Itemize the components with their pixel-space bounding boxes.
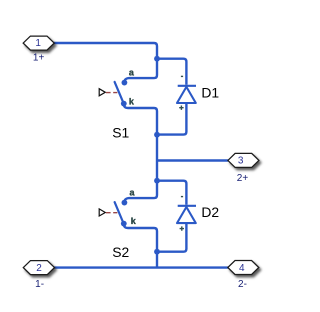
node junction J3 [154, 178, 160, 184]
wire: J1 to diode D1 top [157, 59, 186, 85]
svg-text:k: k [131, 216, 137, 226]
D2 plus label [180, 226, 184, 230]
wire: diode D2 bottom to J4 [157, 223, 186, 252]
wire: switch S1 terminal k to J2 [124, 105, 157, 135]
switch S2 [99, 188, 137, 260]
S1 gate triangle [99, 89, 105, 96]
switch S1 [99, 68, 135, 141]
port 3 [228, 153, 259, 184]
S2 terminal a dot [122, 200, 128, 206]
svg-text:2-: 2- [238, 279, 247, 290]
node junction J1 [154, 56, 160, 62]
svg-text:2+: 2+ [237, 173, 249, 184]
svg-text:a: a [129, 188, 135, 198]
port 2 [23, 261, 54, 290]
svg-text:S1: S1 [112, 125, 129, 141]
svg-text:k: k [129, 97, 135, 107]
port 1 [23, 36, 54, 63]
wire: rail J2 to port3 tee [156, 135, 158, 161]
S2 lever [115, 202, 124, 223]
D2 minus label [181, 196, 183, 198]
diode D1 [177, 76, 219, 110]
diode D2 [177, 197, 219, 231]
S2 gate dashed line [106, 212, 117, 214]
svg-text:1-: 1- [35, 279, 44, 290]
svg-text:a: a [129, 68, 135, 78]
wire: port 1 to junction J1 [53, 43, 157, 59]
S2 terminal k dot [121, 221, 127, 227]
wire: tee to port 3 [157, 159, 228, 161]
svg-text:1+: 1+ [33, 52, 45, 63]
wire: J3 to switch S2 terminal a [124, 181, 157, 203]
node junction J4 [154, 249, 160, 255]
svg-text:2: 2 [36, 263, 42, 274]
D2 cathode bar [178, 205, 196, 207]
wire: J3 to diode D2 top [157, 181, 186, 205]
S1 terminal a dot [122, 80, 128, 86]
wire: switch S2 terminal k to J4 [124, 225, 157, 252]
svg-text:3: 3 [238, 156, 244, 167]
svg-text:D2: D2 [201, 204, 219, 220]
svg-text:D1: D1 [201, 85, 219, 101]
svg-text:S2: S2 [112, 244, 129, 260]
wire: rail tee to J3 [156, 161, 158, 181]
D2 triangle [177, 207, 196, 223]
port 4 [228, 261, 259, 291]
node junction J2 [154, 132, 160, 138]
D1 plus label [179, 106, 183, 110]
S1 gate dashed line [106, 92, 117, 94]
D1 cathode bar [178, 85, 196, 87]
D1 triangle [177, 87, 196, 103]
wire: J1 to switch S1 terminal a [124, 59, 157, 82]
S1 lever [115, 82, 124, 103]
svg-text:1: 1 [35, 38, 41, 49]
D1 minus label [181, 75, 183, 77]
svg-text:4: 4 [239, 263, 245, 274]
S1 terminal k dot [121, 101, 127, 107]
wire: bottom rail port2 to port4 [54, 266, 228, 268]
wire: diode D1 bottom to J2 [157, 103, 186, 135]
S2 gate triangle [99, 209, 105, 216]
wire: rail J4 to bottom rail [156, 252, 158, 268]
